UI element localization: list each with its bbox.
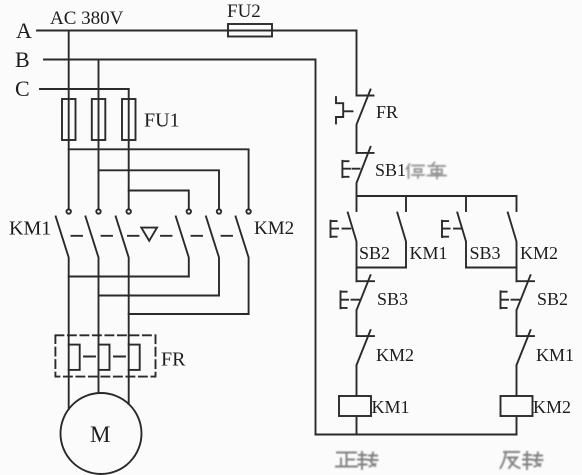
motor lead 3 bbox=[128, 370, 130, 404]
parallel join right bbox=[466, 267, 517, 269]
wire phase B bus and left control rail bbox=[44, 60, 316, 435]
bottom control rail bbox=[316, 434, 517, 436]
KM2 auxiliary NO contact bbox=[516, 196, 518, 211]
svg-text:SB2: SB2 bbox=[359, 243, 390, 263]
cross connection phase swap line2 bbox=[99, 295, 220, 297]
svg-text:C: C bbox=[15, 76, 30, 101]
contactor KM1 main contact pole1 bbox=[67, 209, 71, 213]
contactor KM2 main contact pole2 bbox=[217, 209, 221, 213]
start button SB3 NO bbox=[465, 196, 467, 211]
label fanzhuan (reverse) bbox=[501, 452, 543, 469]
svg-text:KM1: KM1 bbox=[410, 243, 448, 263]
interlock contact KM1 NC bbox=[517, 335, 535, 337]
mechanical linkage dashes bbox=[72, 235, 233, 237]
wire phase A drop bbox=[68, 31, 70, 210]
thermal relay FR heater box bbox=[55, 335, 155, 376]
svg-text:SB3: SB3 bbox=[377, 289, 408, 309]
FR heater element 3 bbox=[129, 345, 140, 370]
coil KM2 bbox=[501, 396, 533, 416]
svg-text:KM2: KM2 bbox=[254, 218, 294, 239]
coil KM1 bbox=[339, 396, 371, 416]
svg-text:KM1: KM1 bbox=[536, 345, 574, 365]
crossover wire A to KM2 pole3 bbox=[69, 149, 249, 209]
svg-text:B: B bbox=[15, 47, 30, 72]
fuse FU1 (three cartridges) bbox=[62, 99, 76, 140]
control branch rail bbox=[357, 195, 517, 197]
svg-text:KM1: KM1 bbox=[9, 218, 51, 240]
svg-text:KM2: KM2 bbox=[520, 243, 558, 263]
svg-text:FU2: FU2 bbox=[227, 1, 261, 22]
contactor KM1 main contact pole3 bbox=[127, 209, 131, 213]
svg-text:FU1: FU1 bbox=[144, 110, 180, 132]
cross connection phase swap line3 bbox=[129, 313, 249, 315]
SB3 actuator E bbox=[442, 221, 462, 237]
linkage triangle bbox=[141, 228, 157, 241]
crossover wire B to KM2 pole2 bbox=[99, 170, 220, 209]
FR heater element 2 bbox=[99, 345, 110, 370]
label tingche (stop) bbox=[407, 163, 447, 179]
FR heater element 1 bbox=[69, 345, 80, 370]
label zhengzhuan (forward) bbox=[336, 452, 378, 469]
fuse FU2 bbox=[228, 24, 272, 37]
wire phase C bbox=[40, 88, 129, 90]
svg-text:A: A bbox=[16, 18, 32, 43]
svg-text:SB1: SB1 bbox=[375, 160, 406, 180]
FR linkage dashes bbox=[84, 356, 125, 358]
svg-text:SB2: SB2 bbox=[537, 289, 568, 309]
svg-text:AC 380V: AC 380V bbox=[50, 8, 124, 29]
cross connection phase swap line1 bbox=[69, 276, 189, 278]
svg-text:KM2: KM2 bbox=[376, 345, 414, 365]
wire phase B drop bbox=[98, 60, 100, 210]
motor lead 2 bbox=[98, 370, 100, 393]
wire phase C drop bbox=[128, 89, 130, 209]
KM1 auxiliary NO contact bbox=[405, 196, 407, 211]
SB2 actuator E bbox=[331, 221, 351, 237]
SB2 NC actuator E bbox=[501, 291, 520, 308]
crossover wire C to KM2 pole1 bbox=[129, 191, 189, 210]
interlock button SB3 NC bbox=[356, 268, 358, 282]
contactor KM1 main contact pole2 bbox=[96, 209, 100, 213]
svg-text:SB3: SB3 bbox=[470, 243, 501, 263]
wire phase A bus bbox=[37, 31, 357, 96]
motor lead 1 bbox=[68, 370, 70, 409]
parallel join left bbox=[357, 267, 407, 269]
SB3 NC actuator E bbox=[341, 291, 360, 308]
svg-text:KM2: KM2 bbox=[533, 397, 571, 417]
motor M bbox=[61, 393, 142, 474]
svg-text:KM1: KM1 bbox=[372, 397, 410, 417]
svg-text:FR: FR bbox=[161, 349, 186, 371]
FR trip actuator bracket bbox=[336, 97, 343, 123]
FR NC contact in control circuit bbox=[357, 95, 374, 97]
contactor KM2 main contact pole3 bbox=[246, 209, 250, 213]
SB1 actuator E bbox=[342, 161, 359, 177]
contactor KM2 main contact pole1 bbox=[187, 209, 191, 213]
interlock contact KM2 NC bbox=[357, 335, 375, 337]
interlock button SB2 NC bbox=[516, 268, 518, 282]
start button SB2 NO bbox=[356, 196, 358, 211]
svg-text:FR: FR bbox=[376, 102, 398, 122]
svg-text:M: M bbox=[90, 422, 110, 447]
stop button SB1 NC bbox=[357, 152, 374, 154]
